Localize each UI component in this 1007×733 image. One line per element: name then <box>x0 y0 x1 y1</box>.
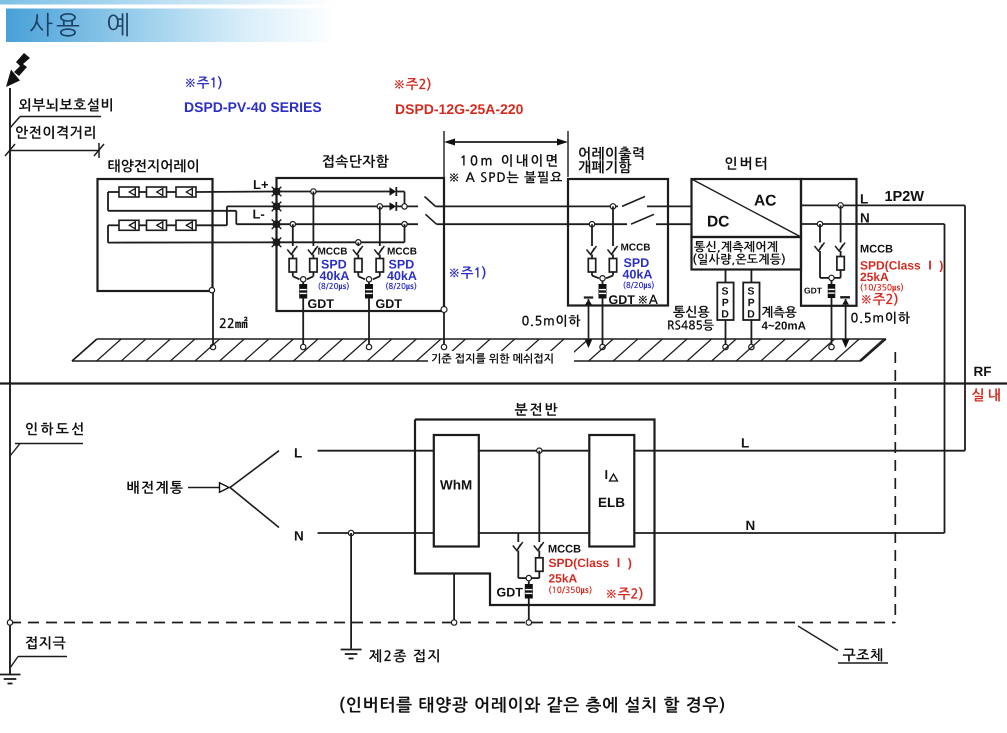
dashed structure horizontal <box>10 622 895 624</box>
label 안전이격거리 <box>16 126 95 139</box>
wire2 after diode <box>397 205 418 207</box>
inverter output compartment <box>801 179 857 306</box>
dimension arrow 10m <box>444 139 568 146</box>
label GDT A sg <box>609 295 658 305</box>
label 통신용 <box>673 306 709 318</box>
node structure left <box>7 620 12 625</box>
GDT 3 <box>599 281 606 347</box>
wire L- switchgear to inverter <box>668 223 692 225</box>
diode D2 <box>390 202 397 211</box>
switch L+ switchgear <box>622 197 668 207</box>
label 0.5m이하 right <box>851 312 910 324</box>
node wire1 branch <box>311 189 316 194</box>
node L branch panel <box>537 448 542 453</box>
node GDT5 junction <box>526 575 531 580</box>
label A SPD 불필요 <box>450 171 562 183</box>
label 태양전지어레이 <box>108 159 198 172</box>
label SPD Class I inverter <box>860 261 943 272</box>
SPD branch inverter L <box>835 205 845 278</box>
wire join inverter SPD <box>820 277 841 279</box>
node GDT5 at structure <box>526 620 531 625</box>
label 25kA panel <box>549 574 577 583</box>
node GDT1 junction <box>301 277 306 282</box>
label 접속단자함 <box>323 155 389 168</box>
inverter DC/AC box <box>692 179 802 237</box>
wire N to right trunk <box>857 224 945 533</box>
switchgear box <box>568 179 668 306</box>
label N lower right <box>746 521 754 530</box>
label 배전계통 <box>127 481 182 494</box>
ground electrode <box>0 675 21 684</box>
node N ground tap <box>348 530 353 535</box>
label MCCB jb2 <box>388 248 417 255</box>
terminal 4 <box>272 238 282 248</box>
comm SPD box 2 <box>743 283 759 321</box>
label MCCB panel <box>549 545 581 553</box>
wire L+ inside switchgear <box>568 205 618 207</box>
wire comm SPD2 ground <box>749 320 754 350</box>
wire L into panel <box>318 450 434 452</box>
node L branch inverter <box>838 203 843 208</box>
SPD branch panel N <box>513 533 523 578</box>
GDT 5 <box>525 581 532 622</box>
label L+ <box>254 180 268 189</box>
label 10/350 panel <box>549 586 591 595</box>
node L+ branch switchgear <box>610 204 615 209</box>
node GDT2 junction <box>366 277 371 282</box>
note 주2 inverter <box>862 293 898 306</box>
label 10m 이내이면 <box>461 154 557 167</box>
dimension tick right <box>567 131 569 177</box>
label 일사량온도계등 <box>693 253 784 265</box>
switch L+ in junction box <box>425 197 445 207</box>
node GDT4 ground at bus <box>829 344 834 349</box>
wire panel frame ground <box>453 574 455 623</box>
wire N WhM to ELB <box>479 532 589 534</box>
caption <box>340 697 724 714</box>
label GDT 2 <box>376 299 402 308</box>
node GDT2 ground at bus <box>366 344 371 349</box>
SPD branch B1 (from L-) <box>287 224 299 279</box>
label 외부뇌보호설비 <box>19 98 112 111</box>
note DSPD-12G-25A-220 <box>396 104 523 114</box>
node wire2 branch <box>377 204 382 209</box>
wire L WhM to ELB <box>479 450 589 452</box>
label L- <box>253 210 264 219</box>
label DC <box>708 216 729 227</box>
wire L- inside switchgear <box>568 223 627 225</box>
label N in <box>295 531 303 540</box>
leader 인하도선 <box>10 444 83 457</box>
label MCCB inverter <box>861 245 893 253</box>
node GDT1 ground at bus <box>301 344 306 349</box>
wire L output <box>801 204 857 206</box>
label 기준 접지를 위한 메쉬접지 <box>432 353 553 364</box>
label 4-20mA <box>762 322 806 330</box>
wire N output <box>801 223 857 225</box>
label L out <box>861 194 868 203</box>
label 22sqmm <box>220 317 248 329</box>
frame ground bar inverter <box>840 297 850 341</box>
label L lower right <box>742 438 749 447</box>
label ELB I <box>605 470 617 481</box>
wire N into panel <box>318 532 434 534</box>
wire L+ switchgear to inverter <box>668 205 692 207</box>
wire comm SPD1 <box>725 270 727 283</box>
wire string1 positive <box>108 191 277 194</box>
label 개폐기함 <box>579 160 632 173</box>
SPD branch B4 (from L+) <box>373 206 384 279</box>
wire L to right trunk <box>857 205 966 450</box>
node combined L- <box>402 222 407 227</box>
wire string2 positive <box>139 206 277 225</box>
label 10/350 inverter <box>861 283 903 292</box>
label ELB <box>599 498 625 507</box>
fanout to N <box>230 488 279 528</box>
label 분전반 <box>515 403 558 416</box>
label 25kA inverter <box>860 272 888 281</box>
node wire3 branch <box>290 222 295 227</box>
arrow inverter frame ground into bus <box>842 340 849 349</box>
SPD branch inverter N <box>815 224 825 278</box>
wire1 L+ string1 <box>277 191 390 193</box>
label 1P2W <box>885 191 924 201</box>
label MCCB sg <box>621 244 650 251</box>
comm SPD box 1 <box>717 283 733 321</box>
wire string1 negative return <box>108 192 277 224</box>
note DSPD-PV-40 SERIES <box>185 102 321 112</box>
wire join panel SPD <box>518 577 539 579</box>
switch L- in junction box <box>426 214 445 224</box>
arrow 배전계통 <box>188 483 229 492</box>
label GDT 1 <box>308 299 334 308</box>
wire comm SPD2 <box>750 270 752 283</box>
label GDT inverter <box>804 288 822 294</box>
node GDT4 junction <box>829 275 834 280</box>
PV string 2 modules <box>119 220 196 230</box>
node jb frame ground at bus <box>441 344 446 349</box>
RF boundary line <box>0 382 1007 384</box>
node combined L+ <box>402 204 407 209</box>
PV string 1 modules <box>119 187 196 197</box>
junction box <box>277 178 445 311</box>
label 어레이출력 <box>579 147 643 160</box>
label SPD 40kA sg <box>623 258 654 290</box>
terminal 2 <box>272 202 282 212</box>
label N out <box>861 213 869 222</box>
wire L- jb to switchgear <box>444 223 568 225</box>
GDT 4 <box>828 281 835 347</box>
label 인하도선 <box>26 422 83 435</box>
node wire4 branch <box>356 240 361 245</box>
wire L out of panel <box>634 450 965 452</box>
terminal 1 <box>272 187 282 197</box>
switch L- switchgear <box>631 214 668 224</box>
dimension 안전이격거리 <box>5 143 104 158</box>
WhM box <box>434 435 479 547</box>
SPD branch B3 (from L-) <box>353 242 365 279</box>
panel outline <box>415 420 655 606</box>
label WhM <box>440 480 471 490</box>
node L- branch switchgear <box>589 222 594 227</box>
node GDT3 ground at bus <box>600 344 605 349</box>
arrow frame ground into bus <box>585 340 592 349</box>
leader line for 외부뇌보호설비 <box>10 117 101 129</box>
label 구조체 callout <box>798 626 888 663</box>
wire external LPS down conductor <box>9 88 11 674</box>
node panel frame at structure <box>451 620 456 625</box>
GDT 1 <box>300 282 307 347</box>
label 통신계측제어계 <box>694 241 777 253</box>
label 실내 <box>972 388 1000 401</box>
ELB box <box>589 435 634 547</box>
wire PV frame ground <box>209 288 216 350</box>
note 주1 marker <box>186 76 222 89</box>
wire3 L- combined <box>277 223 419 225</box>
label 제2종 접지 <box>369 649 439 662</box>
label GDT panel <box>497 588 523 597</box>
wire2 L+ string2 <box>277 205 390 207</box>
title bar <box>6 9 336 43</box>
label 계측용 <box>762 306 796 318</box>
note 주2 marker <box>395 78 431 91</box>
wire1 after diode <box>397 192 405 207</box>
note 주2 panel <box>607 587 643 600</box>
label L in <box>295 448 302 457</box>
PV array box <box>98 179 213 291</box>
mesh ground bus <box>72 339 886 361</box>
lightning bolt <box>6 53 30 87</box>
fanout to L <box>230 451 279 488</box>
dimension tick left <box>443 131 445 177</box>
label 인버터 <box>726 157 767 170</box>
node N branch inverter <box>817 221 822 226</box>
SPD branch switchgear L <box>606 206 618 278</box>
frame ground symbol switchgear <box>584 298 593 342</box>
type 2 earth symbol <box>341 650 362 659</box>
title text 사용 예 <box>30 13 128 37</box>
SPD branch B2 (from L+) <box>307 192 318 280</box>
note 주1 near box <box>450 266 486 279</box>
inverter control box <box>692 237 802 270</box>
label SPD 40kA jb2 <box>386 260 417 291</box>
label SPD 40kA jb1 <box>319 260 350 291</box>
label 구조체 <box>843 648 882 661</box>
wire L+ jb to switchgear <box>444 205 568 207</box>
wire to type2 earth <box>350 533 352 649</box>
label 0.5m이하 left <box>522 315 580 327</box>
wire comm SPD1 ground <box>723 320 728 350</box>
wire string2 negative return <box>108 225 277 242</box>
SPD branch switchgear N <box>587 224 600 278</box>
diode D1 <box>390 187 397 196</box>
label SPD Class I panel <box>549 558 632 569</box>
wire junction box frame ground <box>441 307 447 348</box>
label AC <box>754 195 776 206</box>
node GDT3 junction <box>600 276 605 281</box>
terminal 3 <box>272 219 282 229</box>
GDT 2 <box>366 282 373 347</box>
dashed structure vertical <box>894 352 896 623</box>
wire4 L- string2 <box>277 224 405 242</box>
wire N out of panel <box>634 532 944 534</box>
label MCCB jb1 <box>318 248 347 255</box>
label 접지극 <box>26 636 66 649</box>
label RS485등 <box>668 320 714 331</box>
label RF <box>974 367 991 376</box>
title bar top stripe <box>0 0 336 5</box>
SPD branch panel L <box>534 451 544 578</box>
label 기준접지 배경 <box>428 351 574 365</box>
leader 접지극 <box>10 657 67 669</box>
